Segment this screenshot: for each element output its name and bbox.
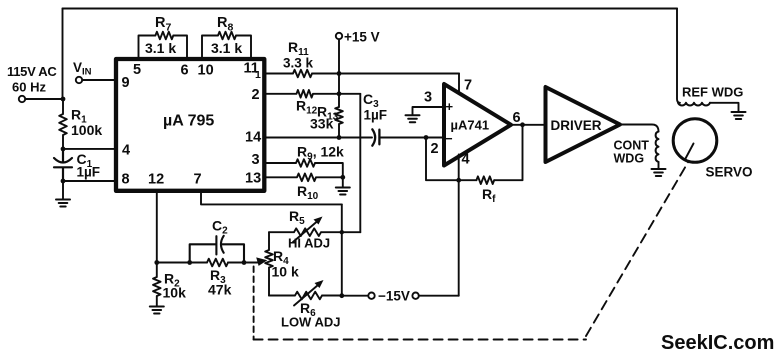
svg-text:5: 5	[133, 62, 141, 78]
svg-text:−15V: −15V	[378, 289, 410, 304]
svg-text:2: 2	[252, 87, 260, 103]
wire driver out	[620, 125, 659, 132]
wire left rail drop	[62, 9, 64, 100]
svg-text:LOW ADJ: LOW ADJ	[281, 315, 340, 330]
svg-text:Rf: Rf	[482, 186, 496, 205]
resistor R3	[207, 259, 228, 267]
svg-text:2: 2	[431, 141, 439, 157]
node pin4-fb	[456, 178, 461, 183]
wire C3 to opamp	[379, 137, 444, 139]
svg-text:1µF: 1µF	[77, 165, 101, 180]
svg-text:3: 3	[252, 152, 260, 168]
svg-text:3: 3	[424, 90, 432, 106]
svg-text:+15 V: +15 V	[344, 30, 380, 45]
op-amp U2 uA741	[444, 84, 511, 166]
wire rail to R13	[338, 74, 340, 94]
wire fb left	[426, 138, 476, 181]
ground G-cont	[658, 162, 660, 169]
wire -15V left	[342, 295, 369, 297]
resistor R9	[264, 159, 342, 177]
node R12-R13	[337, 91, 342, 96]
resistor R10	[264, 174, 342, 182]
node bias-R5	[340, 230, 344, 234]
resistor R2	[153, 263, 161, 307]
node C2-left	[187, 260, 192, 265]
svg-text:6: 6	[513, 110, 521, 126]
svg-text:R12: R12	[296, 98, 318, 117]
wire pin9	[82, 79, 116, 81]
wire fb right	[494, 125, 522, 180]
wire -15V right	[419, 295, 459, 297]
node C1-bottom	[61, 179, 66, 184]
terminal +15V	[336, 33, 342, 39]
wire pin7 bias	[201, 191, 342, 204]
R5 arrow	[293, 222, 317, 243]
svg-text:µA 795: µA 795	[163, 113, 214, 130]
linkage dashed vertical	[253, 267, 255, 340]
terminal -15V b	[412, 293, 418, 299]
resistor R5	[269, 228, 360, 236]
svg-text:SERVO: SERVO	[706, 165, 753, 180]
resistor R6	[269, 292, 342, 300]
node out	[520, 122, 525, 127]
amplifier DRIVER	[546, 87, 621, 162]
svg-text:−: −	[445, 131, 453, 146]
svg-text:4: 4	[462, 152, 470, 168]
wire opamp pin7	[458, 74, 460, 95]
wire opamp pin4	[458, 155, 460, 296]
terminal 115VAC	[19, 96, 25, 102]
svg-text:3.1 k: 3.1 k	[211, 40, 242, 56]
linkage dashed diagonal	[586, 162, 689, 337]
svg-text:4: 4	[122, 143, 130, 159]
wire top rail	[63, 8, 678, 10]
svg-text:9: 9	[122, 75, 130, 91]
svg-text:WDG: WDG	[614, 152, 645, 166]
resistor R11	[264, 70, 459, 78]
R6 arrow	[294, 285, 318, 306]
node +15V-R11	[337, 71, 342, 76]
wire pin4	[63, 148, 116, 150]
resistor R4	[265, 232, 273, 295]
ground G-R10	[342, 177, 344, 187]
svg-text:6: 6	[181, 63, 189, 79]
wire pin8	[63, 180, 116, 182]
wire ref drop	[677, 9, 680, 103]
resistor Rf	[476, 176, 494, 184]
capacitor C3	[372, 129, 379, 145]
svg-text:115V AC: 115V AC	[7, 64, 57, 79]
svg-text:7: 7	[464, 78, 472, 94]
svg-text:12: 12	[148, 172, 164, 188]
svg-text:47k: 47k	[208, 282, 232, 298]
linkage dashed horizontal	[254, 339, 586, 341]
wiper arrow	[244, 262, 258, 264]
pin3 wire+gnd	[413, 107, 445, 115]
node R6--15V	[339, 293, 344, 298]
node C2-right	[242, 260, 247, 265]
svg-text:CONT: CONT	[614, 139, 650, 153]
svg-text:R7: R7	[155, 15, 171, 34]
terminal VIN	[76, 77, 82, 83]
op-amp U1 uA795 box	[116, 59, 264, 191]
capacitor C1	[54, 149, 72, 181]
wire bottom	[157, 262, 207, 264]
wire opamp out	[511, 124, 546, 126]
svg-text:3.3 k: 3.3 k	[283, 56, 314, 71]
wire +15V drop	[338, 39, 340, 73]
svg-text:60 Hz: 60 Hz	[12, 80, 46, 95]
svg-text:R5: R5	[289, 208, 305, 227]
servo shaft	[686, 144, 694, 159]
svg-text:C2: C2	[212, 218, 228, 237]
svg-text:13: 13	[245, 171, 261, 187]
node opamp-in	[424, 135, 429, 140]
capacitor C2	[190, 236, 244, 263]
svg-text:SeekIC.com: SeekIC.com	[661, 332, 774, 354]
svg-text:33k: 33k	[310, 116, 334, 132]
wire pin14	[264, 137, 372, 139]
svg-text:1: 1	[255, 69, 261, 81]
svg-text:10: 10	[198, 63, 214, 79]
svg-text:7: 7	[194, 172, 202, 188]
svg-text:R8: R8	[217, 15, 233, 34]
svg-text:3.1 k: 3.1 k	[145, 40, 176, 56]
node R13-C3line	[337, 135, 342, 140]
svg-text:10 k: 10 k	[272, 264, 299, 280]
inductor REF WDG	[678, 103, 710, 106]
resistor R8	[202, 32, 251, 58]
resistor R7	[139, 32, 188, 58]
svg-text:1µF: 1µF	[364, 108, 388, 123]
resistor R12	[264, 90, 360, 98]
ground G-R2	[150, 306, 164, 308]
svg-text:REF WDG: REF WDG	[682, 85, 743, 100]
svg-text:10k: 10k	[163, 285, 187, 301]
inductor CONT WDG	[656, 132, 659, 162]
svg-text:µA741: µA741	[451, 118, 490, 133]
node R9-R10	[340, 175, 345, 180]
wire R12 drop	[359, 94, 361, 232]
wire 115VAC input	[25, 98, 63, 100]
wire ref gnd	[710, 103, 739, 112]
node R2 top	[154, 260, 159, 265]
svg-text:DRIVER: DRIVER	[551, 118, 602, 133]
wire pin12	[156, 191, 158, 263]
servo motor	[673, 119, 717, 163]
svg-text:+: +	[446, 99, 454, 114]
ground G1	[62, 181, 64, 199]
node R1-C1	[61, 147, 66, 152]
wire bias drop	[341, 204, 343, 295]
svg-text:100k: 100k	[71, 122, 102, 138]
svg-text:VIN: VIN	[73, 60, 92, 78]
terminal -15V a	[368, 293, 374, 299]
resistor R13	[335, 94, 343, 138]
wire R3 out	[228, 262, 244, 264]
svg-text:HI ADJ: HI ADJ	[288, 236, 330, 251]
resistor R1	[59, 99, 67, 149]
node 115VAC junction	[61, 97, 66, 102]
svg-text:8: 8	[122, 172, 130, 188]
svg-text:R10: R10	[297, 183, 319, 202]
svg-text:14: 14	[245, 130, 261, 146]
